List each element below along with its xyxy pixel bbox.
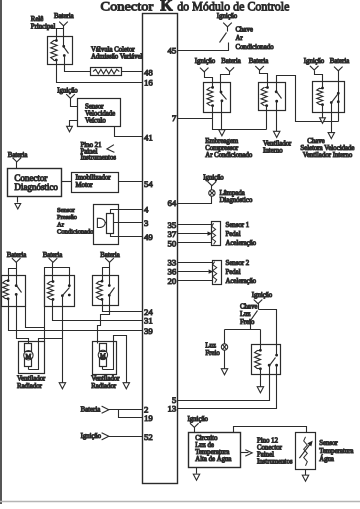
svg-text:Pino 12: Pino 12	[257, 438, 279, 445]
svg-text:Lâmpada: Lâmpada	[220, 190, 245, 197]
svg-text:52: 52	[144, 432, 153, 442]
svg-text:Radiador: Radiador	[17, 383, 43, 390]
svg-text:Luz: Luz	[205, 342, 216, 349]
svg-text:Ignição: Ignição	[81, 433, 102, 440]
svg-text:Bateria: Bateria	[8, 152, 28, 159]
svg-text:Sensor 1: Sensor 1	[226, 222, 250, 229]
svg-text:64: 64	[168, 198, 177, 208]
svg-text:Conector: Conector	[257, 445, 283, 452]
svg-text:Radiador: Radiador	[91, 383, 117, 390]
svg-text:Bateria: Bateria	[7, 252, 27, 259]
svg-text:Ar Condicionado: Ar Condicionado	[205, 152, 253, 159]
svg-text:Aceleração: Aceleração	[226, 278, 257, 285]
svg-text:Chave: Chave	[236, 26, 253, 33]
svg-text:Bateria: Bateria	[43, 252, 63, 259]
svg-text:Instrumentos: Instrumentos	[81, 155, 117, 162]
svg-text:48: 48	[144, 67, 153, 77]
svg-text:Freio: Freio	[240, 319, 255, 326]
svg-text:Ventilador: Ventilador	[17, 375, 46, 382]
svg-text:Pedal: Pedal	[226, 269, 241, 276]
svg-text:Ignição: Ignição	[195, 58, 216, 65]
svg-text:20: 20	[168, 276, 177, 286]
svg-text:Válvula Coletor: Válvula Coletor	[91, 46, 135, 53]
svg-text:Água: Água	[319, 455, 334, 463]
svg-text:Alta de Água: Alta de Água	[195, 455, 231, 463]
svg-text:Ventilador: Ventilador	[91, 375, 120, 382]
svg-text:Ventilador Interno: Ventilador Interno	[303, 152, 353, 159]
svg-text:Ar: Ar	[236, 35, 244, 42]
svg-text:Ar: Ar	[57, 221, 65, 228]
svg-text:Bateria: Bateria	[54, 13, 74, 20]
svg-text:Ignição: Ignição	[252, 292, 273, 299]
svg-text:3: 3	[144, 218, 149, 228]
svg-text:Temperatura: Temperatura	[319, 448, 353, 455]
svg-text:49: 49	[144, 232, 153, 242]
svg-text:Veículo: Veículo	[85, 118, 106, 125]
svg-text:37: 37	[168, 229, 177, 239]
svg-text:7: 7	[172, 113, 177, 123]
svg-text:Conector: Conector	[101, 0, 155, 14]
svg-text:Condicionado: Condicionado	[57, 229, 93, 236]
svg-text:Ignição: Ignição	[57, 88, 78, 95]
svg-text:Chave: Chave	[240, 303, 257, 310]
svg-text:Bateria: Bateria	[221, 58, 241, 65]
svg-text:K: K	[160, 0, 173, 15]
svg-text:13: 13	[168, 404, 177, 414]
svg-text:Interno: Interno	[263, 148, 283, 155]
svg-text:50: 50	[168, 239, 177, 249]
svg-text:Instrumentos: Instrumentos	[257, 459, 293, 466]
svg-text:31: 31	[144, 316, 153, 326]
svg-text:54: 54	[144, 179, 153, 189]
svg-text:Ignição: Ignição	[188, 416, 209, 423]
svg-text:19: 19	[144, 413, 153, 423]
svg-text:Pressão: Pressão	[57, 214, 77, 221]
svg-text:Bateria: Bateria	[249, 58, 269, 65]
svg-text:Velocidade: Velocidade	[85, 111, 115, 118]
svg-text:Bateria: Bateria	[330, 58, 350, 65]
svg-text:Freio: Freio	[205, 350, 220, 357]
svg-text:Sensor: Sensor	[57, 207, 76, 214]
svg-text:Ignição: Ignição	[304, 58, 325, 65]
svg-text:45: 45	[168, 46, 177, 56]
svg-text:Principal: Principal	[31, 24, 56, 31]
svg-text:Ventilador: Ventilador	[263, 141, 292, 148]
svg-text:Diagnóstico: Diagnóstico	[220, 197, 253, 204]
svg-text:Diagnóstico: Diagnóstico	[14, 182, 58, 192]
svg-text:Sensor: Sensor	[319, 440, 338, 447]
svg-text:41: 41	[144, 132, 153, 142]
svg-text:Painel: Painel	[257, 452, 274, 459]
svg-text:Admissão Variável: Admissão Variável	[91, 53, 143, 60]
svg-text:Bateria: Bateria	[81, 407, 101, 414]
svg-text:Ignição: Ignição	[217, 13, 238, 20]
svg-text:Ignição: Ignição	[203, 174, 224, 181]
svg-text:16: 16	[144, 77, 153, 87]
svg-text:Relê: Relê	[31, 16, 43, 23]
svg-text:do Módulo de Controle: do Módulo de Controle	[177, 0, 289, 14]
svg-text:Pedal: Pedal	[226, 231, 241, 238]
svg-text:Sensor 2: Sensor 2	[226, 260, 250, 267]
svg-text:Condicionado: Condicionado	[236, 44, 275, 51]
svg-text:Bateria: Bateria	[100, 252, 120, 259]
svg-text:Sensor: Sensor	[85, 104, 104, 111]
svg-text:Imobilizador: Imobilizador	[76, 175, 112, 182]
svg-text:Luz: Luz	[240, 311, 251, 318]
svg-text:39: 39	[144, 326, 153, 336]
svg-text:4: 4	[144, 205, 149, 215]
svg-text:Compressor: Compressor	[205, 145, 239, 152]
svg-text:Aceleração: Aceleração	[226, 240, 257, 247]
svg-text:Embreagem: Embreagem	[205, 138, 239, 145]
svg-text:Motor: Motor	[76, 182, 94, 189]
